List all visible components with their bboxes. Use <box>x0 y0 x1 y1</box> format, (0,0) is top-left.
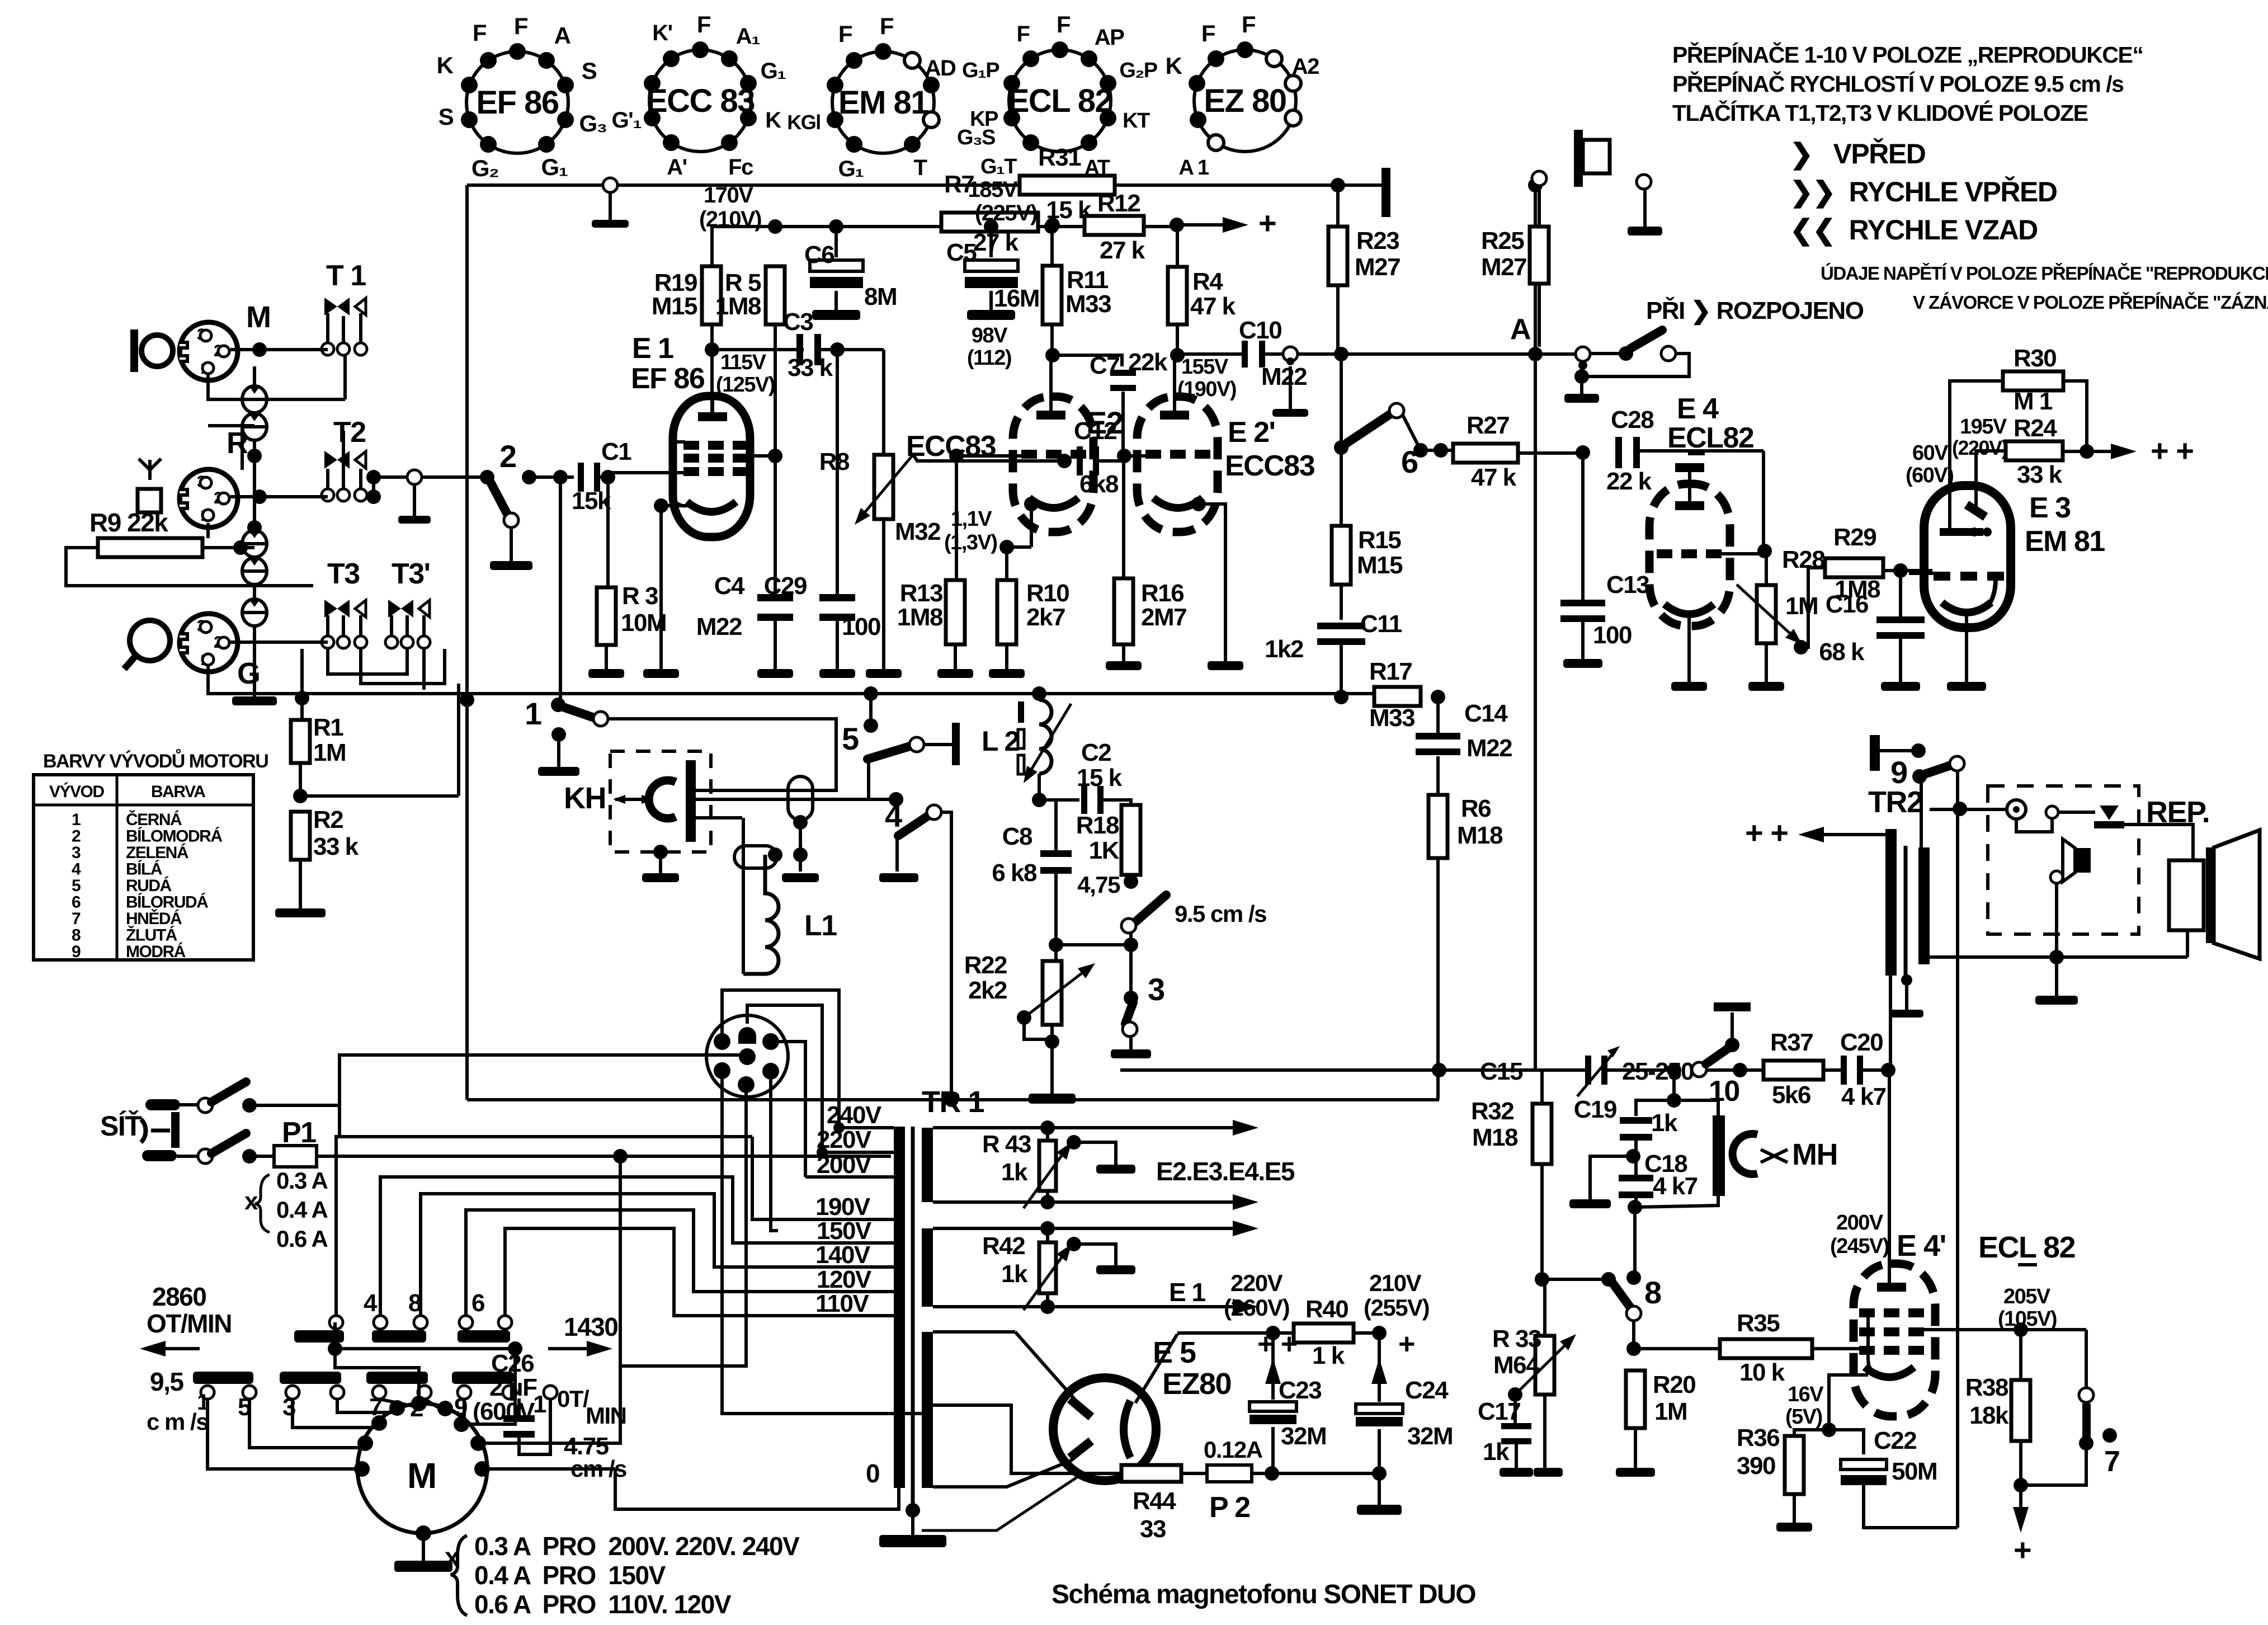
M pin2 circle <box>218 346 229 357</box>
ground R22 <box>1029 1094 1076 1104</box>
wire R28 wiper to R29 <box>1801 568 1825 647</box>
wire col 2022 <box>1129 945 1133 998</box>
rheostat R43 <box>1039 1141 1056 1191</box>
E5 anode 1 <box>1070 1399 1091 1417</box>
svg-text:1K: 1K <box>1089 837 1120 864</box>
tube E4' envelope <box>1854 1264 1935 1416</box>
socket N wire <box>747 1005 822 1152</box>
svg-text:G₁T: G₁T <box>980 155 1017 178</box>
svg-text:C23: C23 <box>1279 1377 1321 1404</box>
svg-text:+: + <box>1398 1328 1414 1360</box>
selC c1 <box>459 1316 473 1329</box>
wire P1 right cont <box>620 1155 891 1158</box>
capacitor C10 <box>1242 341 1265 368</box>
svg-text:5: 5 <box>72 877 81 895</box>
svg-text:200V: 200V <box>1836 1211 1884 1235</box>
svg-text:G₂: G₂ <box>471 155 498 181</box>
wire tap down <box>457 684 460 796</box>
svg-text:5: 5 <box>842 721 859 756</box>
svg-text:ECL 82: ECL 82 <box>1978 1231 2075 1264</box>
junction C24 bottom <box>1372 1466 1387 1481</box>
svg-text:F: F <box>473 20 487 46</box>
switch1 circle <box>593 712 608 726</box>
resistor R40 <box>1294 1323 1354 1343</box>
svg-text:3: 3 <box>72 844 81 862</box>
svg-text:BÍLÁ: BÍLÁ <box>126 860 162 879</box>
svg-text:M 1: M 1 <box>2014 388 2053 415</box>
svg-text:C10: C10 <box>1239 317 1281 344</box>
svg-text:(245V): (245V) <box>1830 1235 1889 1258</box>
socket ECC83 pin <box>663 134 680 151</box>
wire R10 gnd <box>1005 644 1008 669</box>
selC c2 <box>498 1316 512 1329</box>
svg-text:T2: T2 <box>333 416 366 449</box>
wire R20-R35 <box>1634 1347 1720 1350</box>
svg-text:MH: MH <box>1792 1138 1837 1171</box>
wire C26 bottom <box>519 1398 550 1454</box>
motor pin 2 <box>389 1400 405 1416</box>
wire R16 gnd <box>1122 644 1125 661</box>
svg-text:C20: C20 <box>1840 1029 1883 1056</box>
ground R10 <box>989 669 1025 678</box>
wire M1 loop <box>208 375 242 399</box>
switch pri lever <box>1630 330 1662 348</box>
junction row2 <box>1040 1195 1055 1209</box>
terminal dot <box>1286 357 1294 365</box>
wire switch7 down <box>2021 1443 2086 1485</box>
junction sw6 out <box>1413 443 1428 458</box>
sleeve h dot2 <box>793 847 808 862</box>
svg-text:A 1: A 1 <box>1178 156 1209 180</box>
tube E5 EZ80 <box>1053 1378 1156 1481</box>
svg-text:M15: M15 <box>1357 552 1403 579</box>
svg-text:C3: C3 <box>783 308 813 336</box>
E4' underline <box>2018 1263 2037 1266</box>
wire 170V rail <box>712 227 1177 266</box>
socket ECC83 pin <box>721 50 738 67</box>
T3 contact a <box>322 636 334 648</box>
R pin2 circle <box>218 493 229 504</box>
wire T3 loop <box>328 649 407 674</box>
wire R29 right <box>1883 569 1932 572</box>
arrow left 9.5 <box>140 1341 200 1356</box>
speaker small icon <box>2063 839 2091 882</box>
wire R9 left <box>66 548 313 586</box>
R42 wiper <box>1024 1244 1072 1310</box>
T3 stem a <box>326 615 329 636</box>
capacitor C20 <box>1841 1056 1863 1085</box>
svg-text:(225V): (225V) <box>975 201 1037 225</box>
svg-text:E 1: E 1 <box>1169 1278 1205 1307</box>
E4' cathode <box>1865 1367 1914 1377</box>
TR2 primary bar <box>1885 829 1897 976</box>
MH head arc <box>1733 1134 1757 1174</box>
svg-text:16V: 16V <box>1788 1383 1824 1406</box>
svg-text:33: 33 <box>1140 1515 1166 1543</box>
R42 wiper dot <box>1067 1237 1081 1251</box>
selL2 c2 <box>331 1386 344 1399</box>
junction R2 <box>252 489 267 504</box>
E3 cathode hook <box>1990 579 1996 603</box>
junction R12 right <box>1170 218 1184 232</box>
svg-text:15 k: 15 k <box>1077 764 1123 792</box>
svg-text:BÍLOMODRÁ: BÍLOMODRÁ <box>126 827 222 846</box>
wire R8 wiper out <box>914 456 1064 461</box>
selector plate L4 <box>452 1372 513 1384</box>
svg-text:2k2: 2k2 <box>968 977 1007 1004</box>
mains lead bottom <box>142 1150 177 1161</box>
wire C19-C18 <box>1634 1139 1638 1176</box>
E2 top cap <box>1036 411 1065 420</box>
svg-text:C24: C24 <box>1405 1377 1449 1404</box>
svg-text:C5: C5 <box>946 239 977 266</box>
wire TR2 primary bottom <box>1889 976 1892 1070</box>
svg-text:M: M <box>246 300 270 334</box>
svg-text:(255V): (255V) <box>1364 1294 1429 1321</box>
heater row2 <box>933 1200 1081 1204</box>
svg-text:8: 8 <box>72 926 81 945</box>
ground R16 <box>1106 661 1142 670</box>
E1 cathode <box>687 502 736 512</box>
T2 contact c <box>355 489 367 501</box>
E5 anode 2 <box>1070 1441 1091 1458</box>
resistor R29 <box>1825 558 1883 577</box>
wire C1 right <box>600 475 608 479</box>
mains sw bottom circle <box>198 1149 213 1164</box>
svg-text:1k: 1k <box>1001 1260 1028 1288</box>
svg-text:T3: T3 <box>327 558 360 590</box>
resistor R24 <box>2006 441 2063 460</box>
microphone icon <box>130 329 173 372</box>
wire R2 tap <box>300 794 459 798</box>
wire jack to diode <box>2058 811 2095 814</box>
T3 stem b <box>342 615 345 636</box>
socket EM81 pin <box>904 136 921 153</box>
junction T2 row a <box>366 470 381 484</box>
ground C13 <box>1563 659 1602 668</box>
svg-text:170V: 170V <box>704 183 753 208</box>
wire R22 col <box>1054 945 1058 961</box>
svg-text:(112): (112) <box>967 346 1011 370</box>
svg-text:10M: 10M <box>621 609 666 637</box>
jack contact 4 <box>242 558 267 585</box>
wire R25 top <box>1538 186 1541 227</box>
capacitor C22 <box>1841 1459 1887 1485</box>
E1 cathode wire <box>661 504 689 507</box>
svg-text:R2: R2 <box>313 806 343 833</box>
selector plate C <box>458 1330 510 1343</box>
svg-text:F: F <box>1201 20 1215 46</box>
wire 405 row <box>836 225 1085 228</box>
svg-text:100: 100 <box>842 613 880 640</box>
wire C11 down <box>1340 643 1343 694</box>
wire T2b up <box>342 431 345 469</box>
wire C3 down C29 <box>836 350 839 599</box>
arrow right 1430 <box>548 1341 612 1356</box>
junction box low <box>2049 950 2064 964</box>
switch10 bar <box>1714 1002 1751 1011</box>
wire 1689 row <box>1056 943 1131 946</box>
ground C24 <box>1357 1473 1402 1515</box>
svg-text:E 4: E 4 <box>1677 393 1719 425</box>
svg-text:T: T <box>914 156 927 180</box>
TR1 sec bar b <box>922 1228 933 1307</box>
tap wire 0 <box>615 1469 899 1509</box>
connector sleeve v <box>788 776 813 820</box>
E1 cathode junction <box>654 498 668 513</box>
svg-text:(105V): (105V) <box>1998 1307 2057 1331</box>
ground C6 <box>812 310 860 320</box>
svg-text:1,1V: 1,1V <box>951 507 992 531</box>
svg-text:27 k: 27 k <box>973 229 1019 256</box>
ground TR1 <box>879 1510 946 1547</box>
arrow C23 up2 <box>1265 1358 1281 1384</box>
mains plug symbol <box>141 1112 180 1148</box>
pri switch circle <box>1661 346 1676 361</box>
svg-text:G₁: G₁ <box>761 59 786 83</box>
svg-text:EM 81: EM 81 <box>838 84 928 121</box>
socket ECL82 pin <box>1022 50 1039 67</box>
svg-text:L1: L1 <box>804 910 837 942</box>
wire R43 bottom <box>1046 1191 1049 1202</box>
svg-text:AP: AP <box>1095 25 1124 50</box>
junction C19 split <box>1667 1093 1681 1108</box>
switch2 stem <box>510 527 513 561</box>
resistor R38 <box>2011 1380 2030 1441</box>
svg-text:❮❮ RYCHLE VZAD: ❮❮ RYCHLE VZAD <box>1790 214 2038 247</box>
wire C16 top <box>1899 571 1902 618</box>
wire mains top out <box>249 1055 747 1105</box>
resistor R17 <box>1374 687 1421 706</box>
junction sw3 top <box>1124 991 1138 1005</box>
wire frame top <box>208 424 254 427</box>
svg-text:G₁: G₁ <box>541 154 567 180</box>
selL1 down <box>208 1399 359 1469</box>
svg-text:PŘEPÍNAČ RYCHLOSTÍ V POLOZE 9.: PŘEPÍNAČ RYCHLOSTÍ V POLOZE 9.5 cm /s <box>1672 71 2124 97</box>
selL2 c1 <box>286 1386 299 1399</box>
svg-text:22k: 22k <box>1128 348 1168 376</box>
svg-text:C28: C28 <box>1611 406 1654 434</box>
flag symbol <box>1574 130 1610 187</box>
svg-text:T 1: T 1 <box>326 260 366 292</box>
svg-text:R35: R35 <box>1737 1310 1780 1337</box>
svg-text:1M: 1M <box>1654 1398 1687 1425</box>
switch 5 lever <box>867 746 910 759</box>
wire R25 bottom <box>1538 284 1541 347</box>
svg-text:(125V): (125V) <box>716 373 775 397</box>
selL4 down <box>337 1399 394 1412</box>
pot R33 <box>1535 1336 1554 1395</box>
motor pin 9 <box>474 1461 490 1477</box>
wire C1 to R3 <box>606 477 610 587</box>
wire R40 right <box>1354 1331 1379 1335</box>
wire C18 to MH <box>1635 1196 1718 1207</box>
switch2 pivot <box>480 470 494 484</box>
svg-text:1M: 1M <box>313 739 346 766</box>
svg-text:98V: 98V <box>972 324 1008 347</box>
svg-text:R13: R13 <box>900 580 942 607</box>
socket ECL82 pin <box>1100 75 1116 92</box>
T3' stem b <box>405 615 409 636</box>
jack contact 2 <box>242 413 267 440</box>
selB c1 <box>374 1316 387 1329</box>
E3 grid row <box>1934 572 2004 581</box>
selA c1 <box>329 1316 343 1329</box>
E1 g3 link <box>671 442 685 506</box>
wire C28 right <box>1639 449 1764 453</box>
svg-text:R44: R44 <box>1133 1487 1176 1515</box>
svg-text:0: 0 <box>866 1459 879 1488</box>
wire sw2 down <box>559 477 562 700</box>
wire M2 to T1 <box>230 348 328 351</box>
wire R22 gnd <box>1050 1025 1054 1094</box>
socket NE wire <box>777 1042 805 1177</box>
wire C16 gnd <box>1899 638 1902 682</box>
capacitor C24 <box>1356 1404 1403 1426</box>
sel extra c1 <box>544 1386 557 1399</box>
svg-text:K: K <box>765 108 781 133</box>
MH scissors <box>1761 1150 1788 1162</box>
M pin1 circle <box>202 362 214 374</box>
E1 grid wire entry <box>608 471 687 474</box>
motor wire aux <box>461 1349 515 1424</box>
junction pri gnd <box>1574 369 1589 384</box>
capacitor C23 <box>1249 1402 1296 1424</box>
wire sw9 bar <box>1880 749 1918 752</box>
svg-text:A': A' <box>667 155 686 180</box>
capacitor C5 <box>965 260 1018 288</box>
wire C18 gnd branch <box>1590 1156 1633 1199</box>
column A down <box>1534 185 1537 1070</box>
wire M loop2 <box>267 398 345 401</box>
jack contact 3 <box>242 530 267 557</box>
junction motor aux <box>508 1341 522 1356</box>
wire C19 branch <box>1672 1070 1676 1100</box>
switch4 circle <box>927 805 941 819</box>
motor right wire 2 <box>478 1156 620 1443</box>
svg-text:9: 9 <box>72 943 81 961</box>
wire R11 bottom <box>1050 324 1054 355</box>
wire R19 bottom <box>710 324 714 413</box>
selector wire C up <box>421 1194 894 1316</box>
HT top wire <box>933 1330 1015 1334</box>
svg-text:❯ VPŘED: ❯ VPŘED <box>1790 138 1926 171</box>
svg-text:32M: 32M <box>1407 1423 1453 1450</box>
wire R40 left <box>1273 1331 1294 1335</box>
socket EM81 pin <box>923 77 940 93</box>
svg-text:KH: KH <box>564 781 606 815</box>
wire to R36 <box>1794 1430 1829 1436</box>
svg-text:R4: R4 <box>1192 268 1223 295</box>
column M-R-G <box>253 366 256 694</box>
junction R37 left <box>1733 1063 1747 1077</box>
svg-text:60V: 60V <box>1912 441 1949 465</box>
tap wire 190 <box>752 1137 894 1219</box>
E4' grid row2 <box>1859 1327 1924 1336</box>
junction L2 top <box>1032 686 1046 701</box>
wire sw95 stem <box>1129 932 1133 945</box>
svg-text:R11: R11 <box>1067 266 1109 294</box>
svg-text:E 2': E 2' <box>1228 416 1275 449</box>
capacitor C15 <box>1585 1056 1607 1085</box>
socket ECC83 pin <box>740 75 757 92</box>
svg-text:10: 10 <box>1709 1075 1739 1108</box>
TR2 secondary bar <box>1918 847 1930 964</box>
motor pin 3 <box>437 1401 453 1416</box>
svg-text:M32: M32 <box>895 518 940 545</box>
junction R6 1913 <box>1432 1063 1446 1077</box>
svg-text:0.6 A PRO 110V. 120V: 0.6 A PRO 110V. 120V <box>474 1590 732 1619</box>
G pin1 circle <box>202 654 214 665</box>
wire sw5 up <box>869 694 873 726</box>
fuse P2 <box>1207 1465 1252 1482</box>
svg-text:C15: C15 <box>1480 1058 1523 1085</box>
switch9 bar <box>1870 735 1880 771</box>
switch 3 lever <box>1125 1002 1133 1024</box>
heater row3 <box>933 1227 1081 1230</box>
ground switch1 <box>538 742 579 776</box>
wire sw4 out <box>941 812 951 1100</box>
wire L2-C2 <box>1039 798 1079 802</box>
ground switch4 <box>879 873 918 882</box>
rheostat R42 <box>1039 1242 1056 1293</box>
tap wire 240 <box>839 1126 894 1129</box>
wire C7 down <box>1121 392 1125 454</box>
junction C8 low <box>1049 938 1063 952</box>
svg-text:K: K <box>1166 53 1182 79</box>
socket EM81 pin <box>827 111 843 128</box>
junction R5 top <box>768 219 782 234</box>
T1 contact b <box>337 343 350 355</box>
E4' g-link <box>1868 1313 1879 1375</box>
svg-text:2k7: 2k7 <box>1026 604 1065 631</box>
svg-text:C22: C22 <box>1874 1427 1916 1454</box>
svg-text:195V: 195V <box>1960 415 2007 439</box>
E2 cathode dot <box>1024 497 1039 511</box>
svg-text:KGl: KGl <box>787 111 821 134</box>
svg-text:(220V): (220V) <box>1952 436 2008 459</box>
svg-text:8: 8 <box>1644 1275 1661 1310</box>
HT top diag <box>1015 1332 1075 1400</box>
C15 arrow2 <box>1607 1046 1620 1057</box>
wire row2411 <box>335 1347 515 1350</box>
T2 stem a <box>326 469 329 489</box>
switch 1 lever <box>562 706 594 718</box>
svg-text:M18: M18 <box>1472 1124 1518 1151</box>
socket ECC83 pin <box>663 50 680 67</box>
svg-text:190V: 190V <box>815 1193 871 1221</box>
socket S wire <box>620 1092 746 1366</box>
wire C4 ground <box>774 616 777 669</box>
ground C10 terminal <box>1272 366 1308 417</box>
svg-text:VÝVOD: VÝVOD <box>49 782 104 801</box>
junction R column <box>247 520 262 535</box>
junction R40 right <box>1372 1326 1387 1340</box>
junction C20 node <box>1881 1063 1895 1077</box>
capacitor C16 <box>1876 616 1925 639</box>
svg-text:K': K' <box>652 21 672 45</box>
svg-text:F: F <box>514 13 528 39</box>
svg-text:1k2: 1k2 <box>1265 635 1303 663</box>
svg-text:BÍLORUDÁ: BÍLORUDÁ <box>126 893 208 912</box>
wire input row <box>422 475 487 479</box>
svg-text:18k: 18k <box>1969 1402 2009 1429</box>
socket EF86 pin <box>461 77 478 93</box>
column sw9 down <box>1956 770 1959 1528</box>
R33 wiper dot <box>1508 1387 1522 1402</box>
ground switch3 <box>1111 1036 1151 1058</box>
T3 contact c <box>355 636 367 648</box>
